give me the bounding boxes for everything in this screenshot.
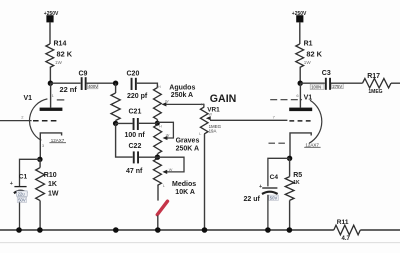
resistor R14 82K 1W <box>46 41 73 68</box>
wire <box>300 82 325 84</box>
plate (anode) <box>40 108 63 111</box>
ground bus wire <box>0 229 334 231</box>
svg-text:C21: C21 <box>129 109 142 116</box>
wire <box>87 82 116 84</box>
power node +250V (right) <box>292 11 307 23</box>
wire <box>115 83 117 93</box>
svg-text:VR1: VR1 <box>207 106 220 113</box>
capacitor C3 100N 275V <box>322 70 343 90</box>
value box 50V <box>269 195 279 200</box>
wire <box>20 159 40 186</box>
grid (dashed) <box>33 120 57 122</box>
node <box>298 81 303 86</box>
resistor (slope, unlabeled) <box>111 93 120 121</box>
capacitor C1 22u 50V (electrolytic) <box>10 173 28 202</box>
svg-text:Graves: Graves <box>176 138 200 145</box>
wire (grid lead) <box>0 120 32 122</box>
wire <box>156 120 158 124</box>
wire <box>137 83 158 87</box>
wire <box>157 185 159 200</box>
svg-text:C22: C22 <box>129 143 142 150</box>
svg-text:+: + <box>259 184 262 190</box>
envelope dashes (bottom left) <box>269 142 286 144</box>
junction <box>37 227 43 233</box>
wire <box>268 158 290 186</box>
envelope dash (top right) <box>57 99 65 101</box>
wire (Agudos wiper to VR1) <box>166 104 204 107</box>
svg-text:R11: R11 <box>337 219 349 226</box>
svg-text:L: L <box>199 132 201 136</box>
plate (anode) <box>289 108 312 112</box>
svg-text:W: W <box>169 168 173 172</box>
svg-text:H: H <box>201 103 204 107</box>
wire <box>299 68 301 84</box>
svg-text:275V: 275V <box>332 84 342 89</box>
junction <box>287 227 293 233</box>
label 12AX7 <box>49 138 66 143</box>
svg-text:H: H <box>159 125 162 129</box>
svg-text:12AX7: 12AX7 <box>51 138 65 143</box>
wire (down to C22) <box>116 123 133 157</box>
wire <box>49 68 51 84</box>
junction <box>16 227 22 233</box>
capacitor C9 22nf 400V <box>60 71 99 94</box>
node <box>113 81 118 86</box>
svg-text:1W: 1W <box>55 60 63 65</box>
svg-text:C4: C4 <box>270 174 279 181</box>
svg-text:4.7: 4.7 <box>342 236 351 242</box>
wire <box>157 215 159 230</box>
value box 22u <box>17 191 28 196</box>
svg-text:400V: 400V <box>88 84 98 89</box>
potentiometer Agudos 250k A (treble) <box>154 85 196 120</box>
capacitor C20 220pf <box>127 71 148 100</box>
wire <box>50 82 80 84</box>
svg-text:GAIN: GAIN <box>210 93 236 105</box>
svg-text:C20: C20 <box>127 71 140 78</box>
potentiometer Medios 10K A (mid) <box>153 159 196 197</box>
svg-text:1MEG: 1MEG <box>368 89 382 95</box>
wire (VR1 wiper to grid) <box>210 119 287 121</box>
wire <box>267 195 269 230</box>
capacitor C22 47nf <box>126 143 157 175</box>
fold line (scan artifact) <box>0 242 400 244</box>
junction <box>265 227 271 233</box>
value box 400V <box>87 83 98 89</box>
svg-text:R17: R17 <box>367 73 380 80</box>
wire <box>331 82 363 84</box>
svg-text:19A: 19A <box>209 128 217 133</box>
svg-text:V1: V1 <box>24 95 33 102</box>
svg-text:47 nf: 47 nf <box>126 168 143 175</box>
svg-text:R1: R1 <box>304 41 313 48</box>
svg-text:82 K: 82 K <box>57 50 73 59</box>
svg-text:220 pf: 220 pf <box>127 93 148 100</box>
resistor R1 82K 1W <box>296 41 323 68</box>
svg-text:22 uf: 22 uf <box>244 196 261 203</box>
svg-text:+: + <box>10 181 13 187</box>
power node +250V (left) <box>44 11 59 23</box>
svg-text:1K: 1K <box>48 181 57 188</box>
cathode <box>40 133 61 159</box>
wire (Graves wiper loop) <box>157 122 173 138</box>
node (cathode junction) <box>37 157 42 162</box>
svg-text:C1: C1 <box>19 173 28 180</box>
svg-text:Medios: Medios <box>172 181 196 188</box>
svg-text:250k A: 250k A <box>171 92 193 99</box>
svg-text:R5: R5 <box>293 172 302 179</box>
wire <box>391 82 400 84</box>
wire <box>49 22 51 44</box>
wire <box>204 134 206 230</box>
triode V1b envelope arc <box>309 100 322 143</box>
svg-text:R14: R14 <box>54 41 67 48</box>
wire (plate lead) <box>299 83 301 107</box>
node <box>113 121 118 126</box>
node <box>155 155 160 160</box>
svg-text:100 nf: 100 nf <box>125 132 146 139</box>
svg-text:82 K: 82 K <box>306 50 322 59</box>
svg-text:W: W <box>165 100 169 104</box>
svg-text:H: H <box>158 85 161 89</box>
svg-text:Agudos: Agudos <box>169 85 195 92</box>
resistor R10 1K 1W <box>36 159 59 230</box>
wire (Medios wiper loop) <box>157 157 184 172</box>
wire <box>360 229 400 231</box>
node (cathode junction right) <box>287 156 292 161</box>
svg-text:50V: 50V <box>270 195 278 200</box>
svg-text:L: L <box>163 184 165 188</box>
wire <box>157 154 159 158</box>
junction <box>155 227 161 233</box>
value box 275V <box>332 83 344 89</box>
junction <box>202 227 208 233</box>
svg-text:22 nf: 22 nf <box>60 85 78 94</box>
svg-text:100N: 100N <box>311 85 321 90</box>
svg-text:C3: C3 <box>322 70 331 77</box>
value box 50V <box>17 197 26 202</box>
cathode <box>290 133 311 158</box>
resistor R5 1K <box>285 158 302 230</box>
capacitor C4 22uf 50V (electrolytic) <box>244 174 279 203</box>
svg-text:250K A: 250K A <box>176 146 199 153</box>
red cut mark <box>157 201 167 214</box>
potentiometer Graves 250K A (bass) <box>154 125 200 154</box>
svg-text:1W: 1W <box>304 60 312 65</box>
svg-text:C9: C9 <box>79 71 88 78</box>
wire <box>115 121 117 124</box>
wire <box>19 202 21 230</box>
svg-text:12AX7: 12AX7 <box>305 142 319 147</box>
resistor R11 4.7 <box>334 219 361 242</box>
resistor R17 1MEG <box>363 73 392 95</box>
node (plate/C9 junction) <box>48 81 53 86</box>
svg-text:R10: R10 <box>44 172 57 179</box>
svg-text:50V: 50V <box>18 198 26 203</box>
svg-text:1W: 1W <box>48 191 59 198</box>
junction <box>113 227 119 233</box>
grid (dashed) <box>289 120 311 122</box>
label 12AX7 <box>304 142 320 147</box>
svg-text:10K A: 10K A <box>175 189 195 196</box>
svg-text:1K: 1K <box>293 180 300 186</box>
value box 100N <box>310 84 324 90</box>
node <box>155 121 160 126</box>
capacitor C21 100nf <box>116 109 158 140</box>
svg-text:22u: 22u <box>18 191 26 196</box>
wire (plate lead) <box>50 83 52 107</box>
wire <box>299 22 301 44</box>
triode V1a envelope arc <box>29 99 47 140</box>
potentiometer VR1 1MEG (gain) <box>199 103 221 137</box>
svg-text:W: W <box>166 133 170 137</box>
envelope dashes (top left) <box>270 99 302 101</box>
